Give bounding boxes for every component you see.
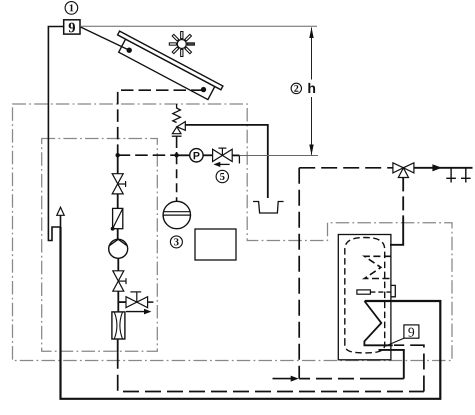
- wire sensor box to collector dot: [80, 27, 129, 50]
- pressure gauge P: [190, 149, 203, 162]
- tap 1: [446, 168, 456, 183]
- tank vessel (dashed): [345, 238, 385, 353]
- flow arrow outlet: [432, 164, 442, 171]
- flow arrow at V5: [213, 162, 229, 167]
- expansion vessel: [163, 201, 190, 228]
- sensor T1 collector (theta box): [64, 20, 80, 34]
- drain funnel: [253, 202, 284, 214]
- inlet stub bracket: [391, 285, 395, 296]
- wire branch: [118, 301, 126, 303]
- node collector flow port: [127, 48, 132, 53]
- pipe mixer outlet: [414, 167, 473, 169]
- pipe cold water riser right (dashed): [394, 345, 424, 391]
- heat exchanger coil lower (solar): [364, 301, 392, 345]
- water meter / pump: [109, 239, 128, 258]
- node collector return port: [201, 87, 206, 92]
- pipe junction B to gauge: [177, 154, 190, 156]
- baffle plate: [357, 290, 371, 294]
- valve V-b shutoff: [113, 271, 126, 291]
- collector cover bar: [118, 31, 223, 90]
- valve V-a shutoff: [112, 174, 125, 194]
- boundary outer dash-dot: [13, 104, 453, 361]
- pipe expansion vessel stem (dashed): [176, 155, 178, 201]
- controller box: [195, 229, 236, 260]
- node label circled 1: [65, 2, 78, 15]
- node label circled 3: [170, 236, 182, 248]
- tap 2: [461, 168, 471, 183]
- wire: [117, 194, 119, 209]
- wire: [117, 229, 119, 239]
- flow arrow branch: [126, 309, 151, 315]
- tank outer box: [338, 235, 391, 360]
- pipe gauge to valve 5: [203, 154, 213, 156]
- wire: [117, 258, 119, 271]
- label h: [308, 83, 315, 93]
- boundary inner-left dash-dot: [42, 139, 158, 352]
- dimension line h: [309, 27, 313, 155]
- flow meter: [112, 312, 125, 339]
- coil upper DHW (dashed): [365, 256, 391, 278]
- pipe collector return (dashed): [118, 90, 204, 155]
- pipe safety valve discharge: [185, 125, 267, 198]
- pipe mixer to tank (dashed then solid): [402, 177, 404, 218]
- sensor T2 tank (theta box): [404, 325, 419, 338]
- reference line bottom (h): [239, 154, 318, 156]
- pipe junction A to junction B (dashed): [118, 154, 177, 156]
- collector panel: [119, 39, 215, 100]
- wire sensor T2 to tank: [385, 338, 404, 346]
- valve V5 fill/drain: [213, 148, 240, 163]
- pipe cold down-riser (dashed): [298, 168, 300, 379]
- node junction B: [174, 153, 178, 157]
- flow arrow cold feed: [273, 376, 299, 382]
- safety valve SV: [172, 104, 186, 155]
- node junction A: [116, 153, 120, 157]
- pipe DHW to mixer (dashed): [299, 167, 392, 169]
- mixing valve 3-way: [393, 163, 414, 178]
- reference line top (h): [80, 25, 317, 27]
- node label circled 5: [216, 170, 228, 182]
- pipe cold horizontal (dashed): [299, 378, 376, 380]
- wire meter down: [117, 339, 119, 353]
- wire baffle to wall (dashed): [370, 291, 391, 293]
- wire sensor box left + left drop: [48, 27, 63, 241]
- node label circled 2: [291, 83, 301, 93]
- valve V-c branch: [126, 292, 153, 308]
- pipe cold feed to tank bottom: [379, 350, 404, 379]
- sun symbol: [164, 26, 199, 61]
- air vent: [57, 207, 64, 227]
- check valve / filter: [111, 208, 123, 230]
- wire column through branch: [117, 291, 119, 312]
- pipe cold water main (dashed): [118, 353, 424, 392]
- wire solar main loop: left drop, bottom run, right riser, coil feed: [61, 227, 441, 399]
- pipe column junction A down: [117, 155, 119, 174]
